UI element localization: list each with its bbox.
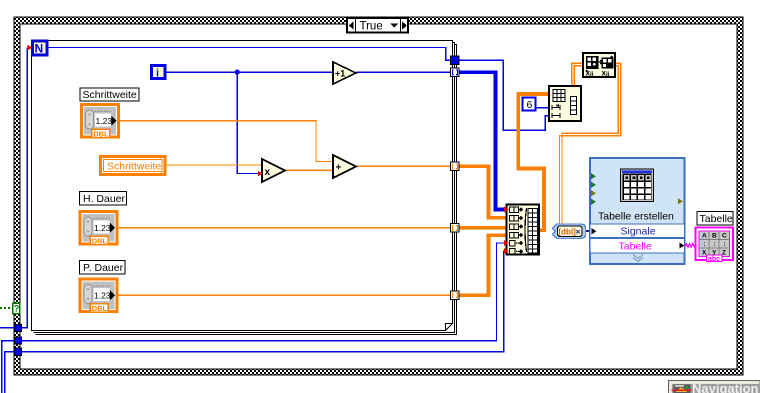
- case border tunnel 3 (blue): [14, 348, 21, 355]
- coercion arrow into N: [28, 45, 33, 51]
- Express VI Tabelle erstellen: [590, 158, 685, 264]
- numeric control Schrittweite (DBL): [82, 105, 119, 139]
- wire: case tunnel 3 blue to build-array input 6: [5, 251, 507, 393]
- coercion dot at multiply lower input: [258, 171, 263, 177]
- wire: add output to orange tunnel 1: [356, 165, 451, 167]
- coercion dot build-array input 6: [504, 248, 509, 254]
- svg-text:Signale: Signale: [621, 226, 656, 238]
- svg-text:abc: abc: [708, 256, 720, 263]
- wire: dbl array from tunnel 2 to build-array input 3: [459, 226, 507, 230]
- svg-text:Schrittweite: Schrittweite: [83, 89, 137, 101]
- local variable Schrittweite: [101, 157, 166, 175]
- multiply node: [262, 159, 285, 182]
- svg-text:i: i: [156, 68, 159, 80]
- wire: 2D array reshape to transpose (double line): [572, 63, 583, 86]
- wire: Schrittweite control to add upper input: [120, 121, 334, 162]
- svg-text:Schrittweite: Schrittweite: [107, 160, 161, 172]
- svg-text:H. Dauer: H. Dauer: [83, 193, 126, 205]
- svg-text:x: x: [265, 167, 271, 178]
- Navigation window fragment: [669, 381, 760, 393]
- wire: N count from case tunnel up left side: [0, 48, 29, 329]
- wire: dbl array from tunnel 3 to build-array input 4: [459, 235, 507, 295]
- tunnel: auto-index dbl 2: [451, 224, 459, 233]
- label Schrittweite: [80, 88, 139, 101]
- tunnel: auto-index dbl 3: [451, 291, 459, 300]
- case selector label "True": [347, 18, 408, 33]
- label Tabelle (indicator): [697, 212, 733, 226]
- iteration terminal i: [152, 66, 166, 80]
- wire: multiply output to add lower input: [285, 169, 333, 171]
- svg-text:Z: Z: [722, 250, 726, 257]
- loop count terminal N: [33, 41, 48, 56]
- wire: constant 6 to reshape dim1: [536, 107, 549, 109]
- wire: dynamic data convert node to Express VI: [585, 230, 591, 232]
- tunnel: auto-index i32 array: [451, 68, 459, 77]
- reshape array node: [549, 86, 581, 121]
- svg-text:+1: +1: [335, 69, 345, 79]
- label H. Dauer: [80, 192, 127, 206]
- transpose 2D array node: [583, 53, 615, 78]
- wire: i to +1: [166, 71, 333, 73]
- table indicator icon: [696, 228, 734, 263]
- svg-text:[dbl]: [dbl]: [559, 227, 577, 236]
- node: junction dot on i wire: [235, 70, 240, 75]
- label P. Dauer: [80, 261, 126, 275]
- tunnel: scalar count (solid blue): [451, 56, 459, 65]
- svg-text:+: +: [336, 163, 342, 174]
- svg-text:C: C: [722, 233, 727, 240]
- svg-text:Navigation: Navigation: [692, 381, 759, 393]
- wire: H. Dauer control to orange tunnel 2: [119, 227, 452, 229]
- wire: loop count to reshape dim2 (outside): [459, 60, 549, 130]
- svg-text::: :: [714, 241, 716, 248]
- svg-text:Tabelle: Tabelle: [619, 241, 652, 253]
- svg-text:6: 6: [527, 99, 533, 111]
- wire: build-array output up to reshape array input: [518, 94, 548, 230]
- wire: Schrittweite local variable to multiply upper input: [166, 164, 263, 166]
- case border tunnel 2 (blue): [14, 337, 21, 344]
- case border tunnel 1 (blue): [14, 324, 21, 331]
- svg-text:Tabelle erstellen: Tabelle erstellen: [598, 211, 674, 223]
- svg-text:A: A: [702, 233, 707, 240]
- numeric constant 6: [523, 98, 536, 112]
- tunnel: auto-index dbl 1: [451, 162, 459, 171]
- svg-text::: :: [724, 241, 726, 248]
- numeric control H. Dauer (DBL): [80, 212, 117, 246]
- case selector terminal ?: [13, 303, 20, 314]
- svg-text:?: ?: [14, 304, 19, 314]
- convert to dynamic data node [dbl]: [553, 224, 586, 239]
- numeric control P. Dauer (DBL): [80, 279, 117, 313]
- wire: P. Dauer control to orange tunnel 3: [119, 294, 452, 296]
- svg-text:N: N: [35, 42, 44, 56]
- wire: i32 array (thick blue) from indexing tunnel to build-array input 1: [459, 72, 507, 209]
- wire: case tunnel 2 blue to build-array input 5: [2, 243, 507, 393]
- svg-text:B: B: [712, 233, 717, 240]
- add node: [333, 155, 356, 178]
- svg-text:P. Dauer: P. Dauer: [83, 262, 124, 274]
- coercion dot build-array input 5: [504, 240, 509, 246]
- increment node +1: [333, 62, 356, 84]
- wire: +1 output to indexing tunnel: [356, 71, 451, 73]
- build array node: [507, 205, 540, 255]
- for-loop border: [32, 41, 457, 335]
- wire: i branch down to multiply: [237, 72, 258, 173]
- wire: 2D array transpose to convert node (double line): [560, 63, 621, 223]
- svg-text:Tabelle: Tabelle: [700, 213, 733, 225]
- svg-text:×: ×: [576, 226, 581, 236]
- boolean wire into case selector terminal: [0, 307, 13, 309]
- svg-text:True: True: [360, 21, 383, 33]
- wire: from N to right loop tunnel: [48, 48, 451, 61]
- wire: dynamic data zigzag to table indicator: [685, 242, 700, 250]
- coercion dot build-array input 1: [504, 207, 509, 213]
- wire: dbl array from tunnel 1 to build-array input 2: [459, 166, 507, 218]
- svg-text::: :: [704, 241, 706, 248]
